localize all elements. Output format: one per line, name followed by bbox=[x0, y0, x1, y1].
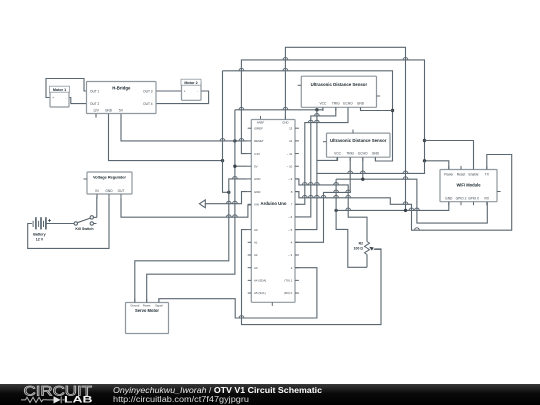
wire Motor1 + to H-Bridge OUT1 bbox=[46, 79, 87, 98]
battery B1 12V bbox=[33, 217, 51, 229]
wire 5V drop to Ultrasonic 2 VCC bbox=[317, 110, 337, 161]
servo motor M3 bbox=[126, 303, 169, 334]
wire Arduino top GND pin to WiFi GND net bbox=[285, 47, 405, 210]
wire Motor1 - to H-Bridge OUT2 bbox=[69, 98, 87, 104]
CircuitLab logo bbox=[21, 383, 322, 404]
wire Arduino GND pin2 to ground flag bbox=[205, 192, 247, 204]
wire Battery + to Kill Switch bbox=[47, 223, 75, 225]
ultrasonic distance sensor U4 bbox=[301, 76, 376, 107]
voltage regulator U3 bbox=[87, 172, 132, 194]
wire Arduino 8 to WiFi TX bbox=[295, 155, 512, 231]
wire Arduino GND pin1 to Servo Ground bbox=[135, 179, 248, 303]
H-Bridge U2 bbox=[87, 82, 157, 114]
wire 3.3V to WiFi Enable bbox=[425, 141, 474, 170]
wire Ultrasonic 2 TRIG to Arduino 4 bbox=[295, 157, 350, 242]
junction GND net bbox=[227, 191, 230, 194]
wire GND net top rail to Ultrasonic 2 GND bbox=[223, 71, 393, 161]
wire Arduino A0 to R2 wiper bbox=[242, 230, 382, 325]
wire Voltage Regulator GND to Battery - bbox=[28, 198, 109, 249]
junction 3.3V / Power bbox=[423, 159, 426, 162]
kill switch SW1 bbox=[74, 216, 96, 226]
wire H-Bridge GND to GND net bbox=[109, 114, 223, 161]
wire 5V drop continues bbox=[316, 160, 318, 173]
wire Ultrasonic 1 TRIG to Arduino ~6 bbox=[295, 107, 336, 217]
wire Arduino 5V pin to 5V net bbox=[235, 165, 248, 167]
wire GND net vertical bbox=[223, 71, 229, 193]
wire WiFi GND leftward bbox=[336, 202, 449, 211]
wire Ultrasonic 1 GND to GND rail bbox=[361, 107, 393, 110]
wire Kill Switch to Voltage Regulator IN bbox=[96, 194, 98, 217]
wire H-Bridge OUT3 to Motor2 + bbox=[156, 90, 182, 92]
Arduino Uno U1 bbox=[251, 120, 295, 303]
ultrasonic distance sensor U5 bbox=[327, 133, 391, 157]
motor M1 bbox=[50, 89, 69, 107]
wire H-Bridge 5V to Arduino RESET / 5V net bbox=[121, 114, 248, 141]
wire Ultrasonic 2 ECHO rail to WiFi RX bbox=[336, 179, 487, 223]
ground net flag bbox=[199, 200, 205, 208]
wire Voltage Regulator OUT to Arduino VIN bbox=[121, 198, 251, 217]
junction 3.3V / Enable bbox=[423, 139, 426, 142]
junction 5V net at 5V pin bbox=[233, 165, 236, 168]
wire 5V rail to Ultrasonic 1 VCC bbox=[235, 107, 323, 110]
potentiometer R2 100 Ohm bbox=[365, 242, 370, 255]
svg-text:http://circuitlab.com/ct7f47gy: http://circuitlab.com/ct7f47gyjpgru bbox=[113, 394, 249, 404]
junction GND rail / sensor1 GND bbox=[391, 109, 394, 112]
wire Motor2 - to H-Bridge OUT4 bbox=[156, 91, 209, 104]
stub H-Bridge 12V pin bbox=[95, 114, 97, 118]
wire Ultrasonic 2 ECHO drop bbox=[362, 157, 364, 179]
wire Arduino ~9 to R2 top bbox=[295, 179, 367, 242]
junction GND net bbox=[221, 159, 224, 162]
wire Ultrasonic 1 ECHO to Arduino 7 bbox=[295, 107, 348, 204]
WiFi module U6 bbox=[440, 170, 497, 202]
wire Arduino 3.3V to WiFi Power/Enable bbox=[241, 60, 424, 161]
wire GND branch to R2 bottom bbox=[336, 179, 367, 267]
junction GND top net / WiFi GND bbox=[404, 209, 407, 212]
junction 5V rail bbox=[315, 108, 318, 111]
junction ECHO2 / RX rail bbox=[361, 178, 364, 181]
svg-text:LAB: LAB bbox=[64, 394, 93, 404]
wire 5V net vertical to Servo Power bbox=[147, 110, 235, 303]
wire switch throw bbox=[94, 216, 97, 218]
wire 3.3V drop to Arduino ~5 bbox=[295, 161, 425, 230]
wire 3.3V to WiFi Power bbox=[425, 161, 449, 170]
wire Servo Signal to Arduino 2 bbox=[159, 268, 317, 318]
junction WiFi GND / pot branch bbox=[334, 209, 337, 212]
motor M2 bbox=[182, 82, 202, 100]
junction 5V net at RESET row bbox=[233, 139, 236, 142]
